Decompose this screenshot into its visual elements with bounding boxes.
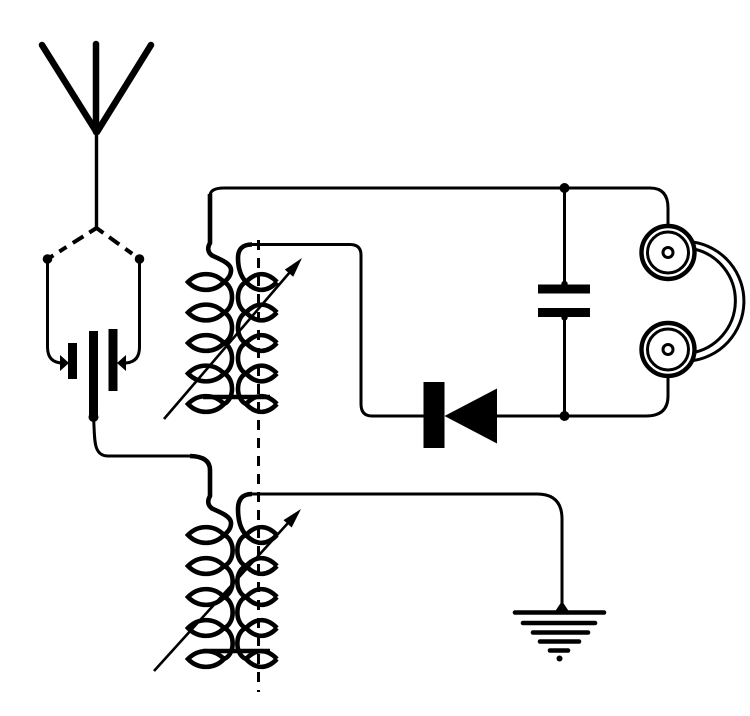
node B (right junction dot)	[135, 254, 145, 264]
wire L2 to diode D1	[252, 245, 424, 417]
wire capacitor C2 branch	[563, 188, 566, 416]
dashed core axis	[257, 240, 260, 692]
node C (capacitor bottom dot)	[89, 412, 99, 422]
coil L1 (top transformer left winding)	[188, 194, 232, 412]
node D (top bus junction dot)	[560, 183, 570, 193]
wire L4 to ground	[252, 494, 562, 610]
wire antenna lead	[95, 131, 98, 229]
wire D1 to phones bottom	[496, 377, 668, 416]
coil L3 (bottom transformer left winding)	[188, 456, 233, 667]
capacitor C2 plates	[538, 285, 590, 294]
headphones earpiece top	[642, 226, 695, 279]
variable capacitor C1 plates	[68, 343, 77, 379]
node E (bottom junction dot)	[560, 411, 570, 421]
diode D1	[424, 382, 445, 448]
coil L4 (bottom transformer right winding)	[203, 494, 277, 667]
dashed link antenna to capacitor C1	[48, 228, 140, 259]
wire C1 to coil L3	[94, 417, 191, 456]
wire left branch to C1 left plate	[48, 259, 67, 363]
tuning arrow of L1/L2	[164, 272, 290, 419]
wire top bus L1 to phones	[210, 188, 668, 227]
headphones headband	[690, 242, 744, 361]
wire right branch to C1 right plate	[121, 259, 140, 363]
ground	[515, 613, 604, 651]
node A (left junction dot)	[43, 254, 53, 264]
antenna	[42, 44, 151, 132]
headphones earpiece bottom	[642, 323, 695, 376]
coil L2 (top transformer right winding)	[203, 245, 277, 412]
tuning arrow of L3/L4	[154, 523, 288, 671]
